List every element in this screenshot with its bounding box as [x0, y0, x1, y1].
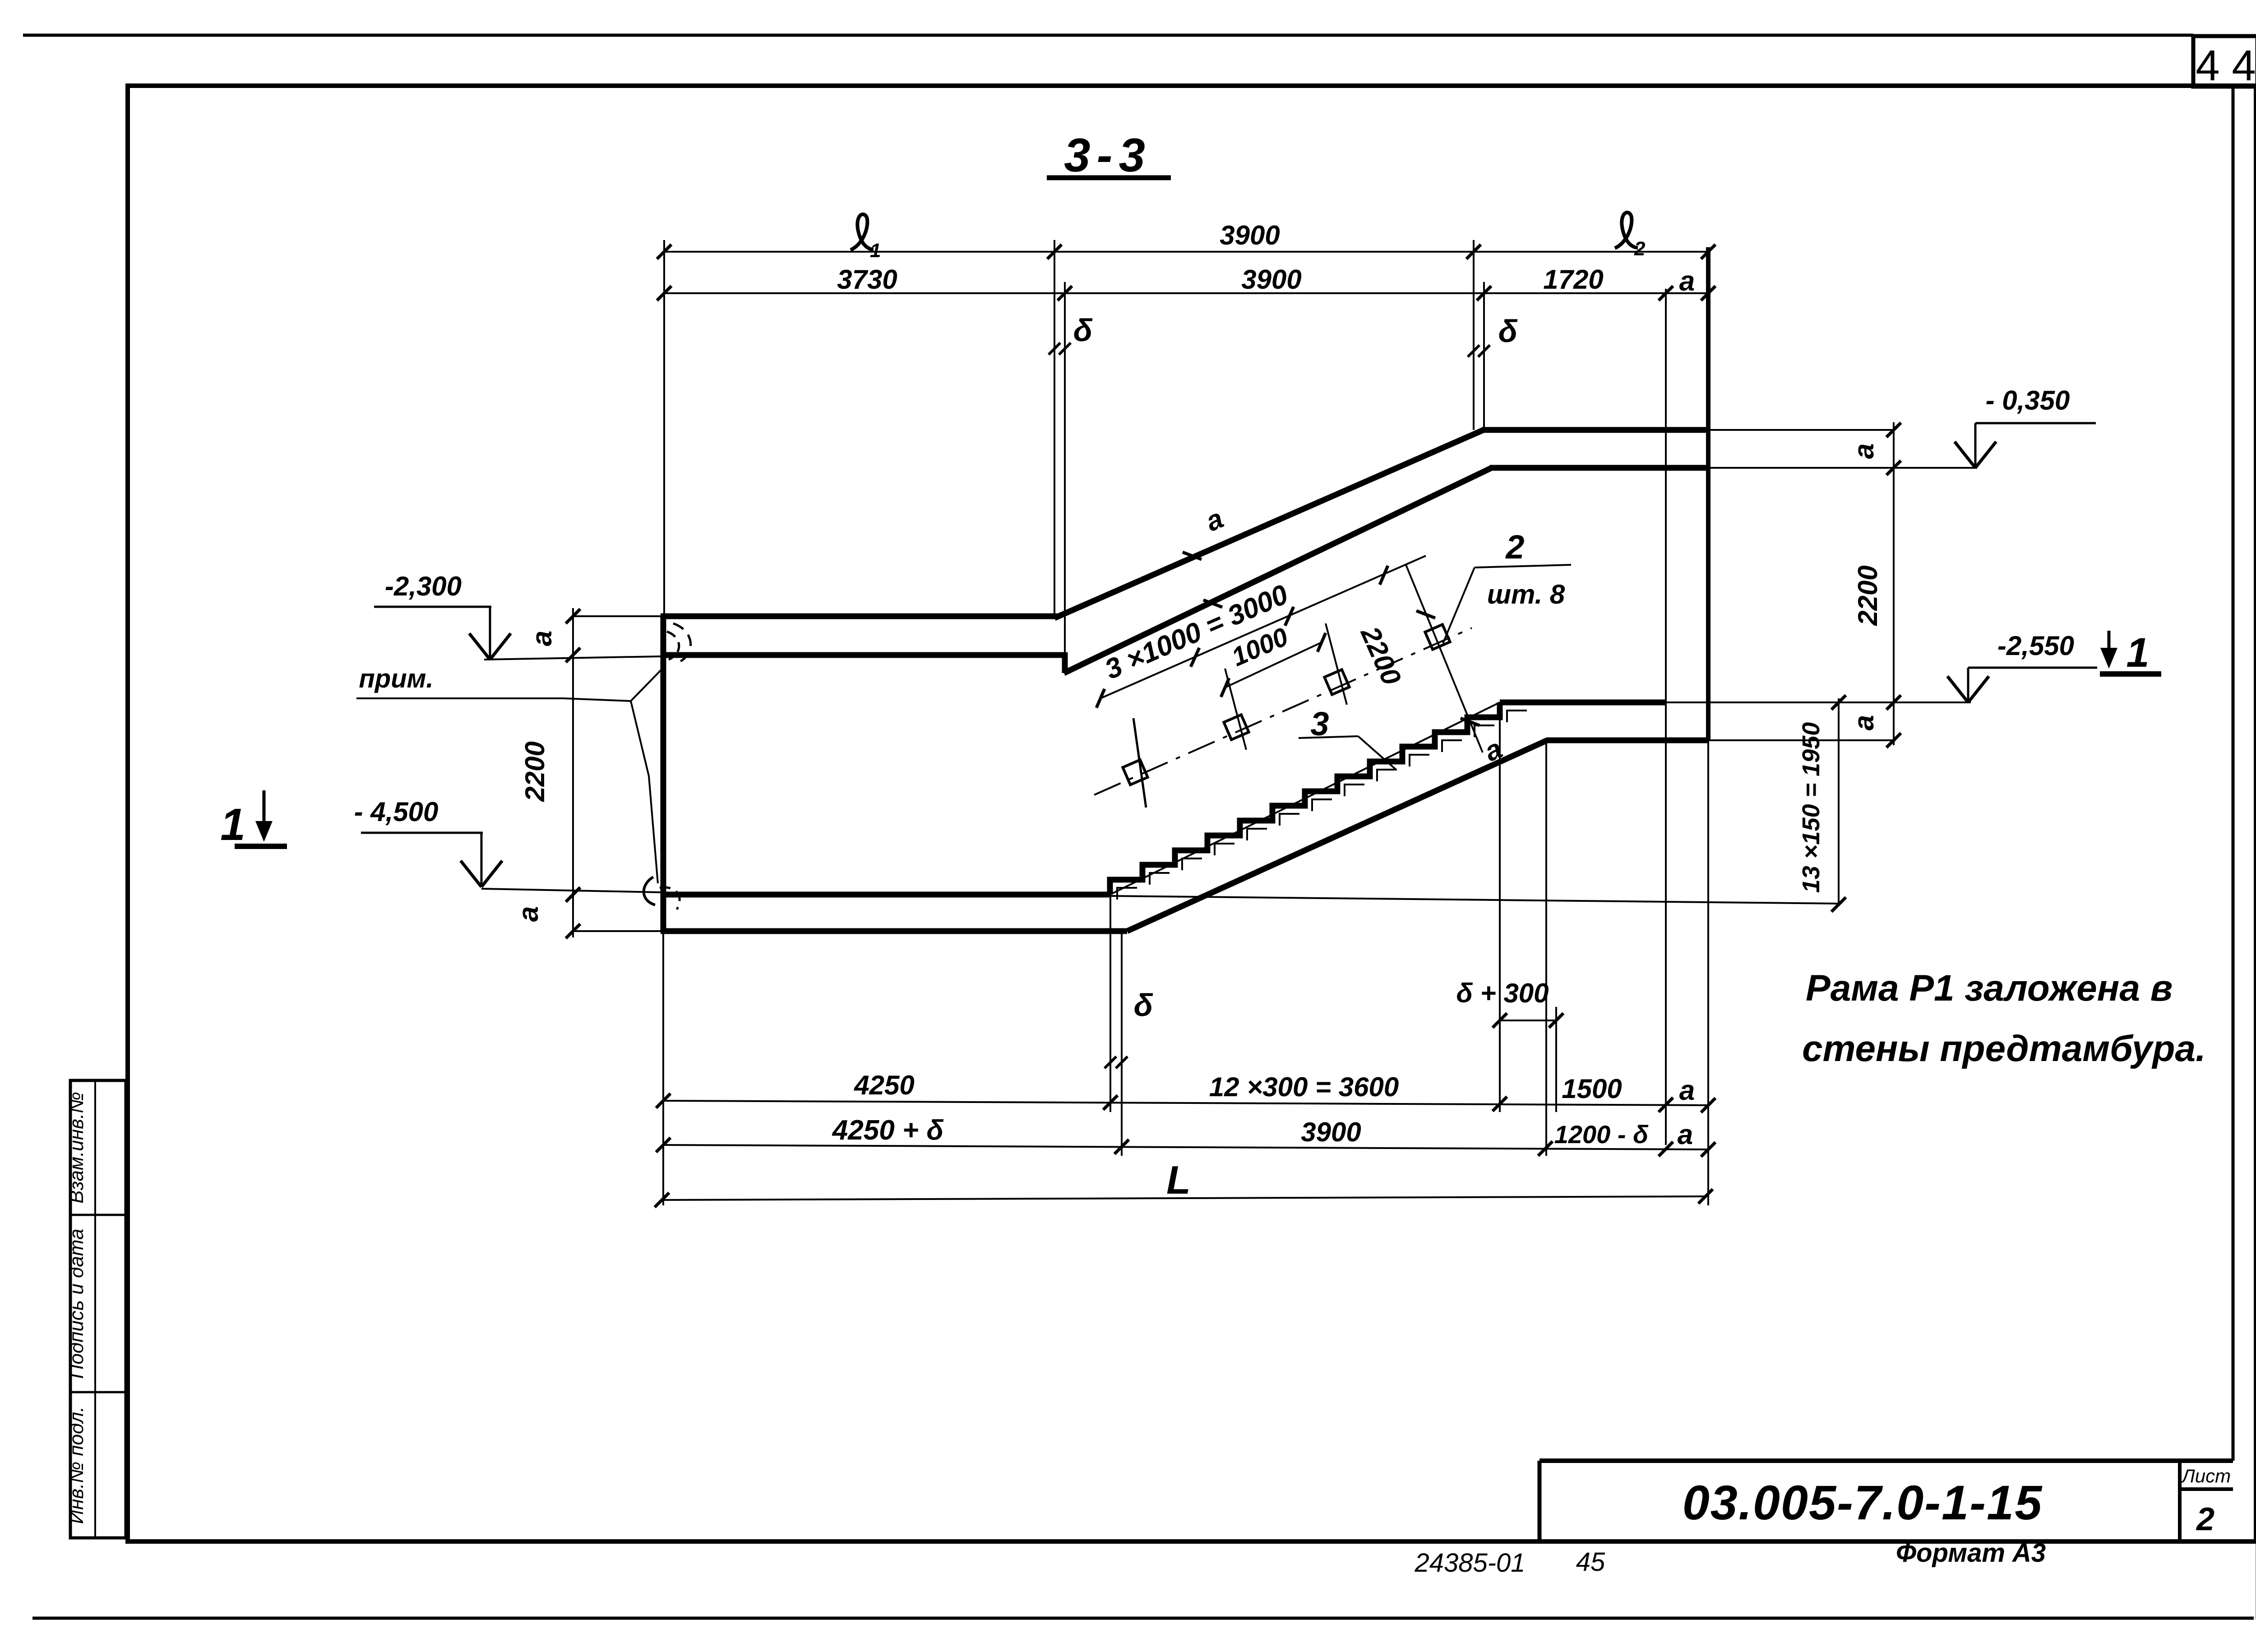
svg-text:Взам.инв.№: Взам.инв.№: [65, 1092, 88, 1204]
svg-text:a: a: [1849, 715, 1880, 730]
anchor plate centerline dash-dot: [1094, 628, 1472, 795]
13x150 dim ticks: [1831, 695, 1846, 710]
left stamp column outline: [70, 1080, 126, 1538]
anchor plate 3: [1324, 669, 1349, 694]
bottom dimension row B line: [663, 1145, 1708, 1149]
svg-text:1500: 1500: [1562, 1074, 1622, 1104]
delta dim right pair: [1468, 345, 1479, 357]
level mark -4,500: [461, 861, 481, 887]
extension line x3324 below landing: [1499, 702, 1501, 1112]
inner right border line: [2232, 87, 2235, 1461]
svg-text:13 ×150 = 1950: 13 ×150 = 1950: [1798, 722, 1825, 893]
upper floor slab bottom edge: [1490, 465, 1708, 471]
upper floor slab top extension line: [1708, 429, 1894, 431]
top dimension row 1 line: [664, 251, 1708, 253]
extension line x3449 delta300: [1555, 1007, 1557, 1112]
tick row1: [1047, 245, 1062, 259]
tick rowA: [1659, 1098, 1673, 1112]
top dimension row 2 line: [664, 292, 1708, 294]
label l2: [1615, 212, 1646, 260]
svg-text:3900: 3900: [1241, 264, 1301, 295]
stair landing bottom extension line: [1708, 739, 1895, 741]
level mark -2,550: [1947, 676, 1968, 702]
extension line x2360: [1064, 282, 1066, 652]
lower slab top extension line under stairs: [1111, 896, 1839, 904]
step nosing line item 3: [1110, 702, 1500, 895]
right wall inner face extension line: [1665, 289, 1667, 1145]
lower slab top extension to left: [481, 889, 661, 892]
extension line x3427 below landing: [1545, 740, 1547, 1156]
middle landing slab bottom edge: [661, 652, 1065, 658]
left a dim upper ticks: [566, 609, 580, 623]
sheet number box: [2193, 36, 2256, 87]
tick rowB: [1114, 1140, 1129, 1154]
svg-text:1720: 1720: [1543, 264, 1603, 295]
tick rowA: [656, 1094, 670, 1108]
svg-text:12 ×300 = 3600: 12 ×300 = 3600: [1209, 1072, 1399, 1102]
svg-text:a: a: [1679, 266, 1695, 297]
upper flight bottom diagonal: [1064, 468, 1492, 673]
tick rowB: [1701, 1142, 1715, 1157]
dim line 1000: [1225, 642, 1322, 688]
slab top extension to left dim: [573, 615, 661, 617]
lower slab bottom extension to left: [573, 930, 661, 932]
svg-text:2200: 2200: [520, 741, 550, 802]
svg-text:a: a: [1678, 1119, 1693, 1150]
anchor plate 2: [1224, 715, 1248, 739]
tick row1: [1466, 245, 1481, 259]
lower junction hook detail: [644, 877, 655, 905]
prim leader branch lower: [631, 701, 658, 883]
left wall section line: [661, 616, 666, 931]
svg-text:2: 2: [1505, 528, 1524, 566]
middle landing edge step down: [1062, 652, 1068, 673]
svg-text:δ: δ: [1498, 314, 1518, 349]
extension line x2461 below stairs: [1110, 895, 1111, 1112]
tick rowB: [1538, 1141, 1553, 1156]
dim line 3x1000=3000: [1100, 556, 1426, 698]
label l1: [851, 214, 881, 262]
stamp divider below Vzam cell: [70, 1214, 126, 1216]
tick row2: [657, 286, 671, 300]
extension line left x1472 lower: [662, 931, 664, 1205]
prim leader line: [356, 698, 631, 701]
stair landing top edge: [1500, 700, 1666, 706]
svg-text:- 0,350: - 0,350: [1986, 385, 2070, 415]
step finish thin marks: [1117, 711, 1527, 900]
lower slab top edge: [661, 892, 1111, 898]
anchor plate 1 vertical mark: [1133, 718, 1146, 808]
svg-text:прим.: прим.: [359, 664, 433, 693]
svg-text:3-3: 3-3: [1064, 129, 1151, 182]
upper flight top diagonal: [1054, 430, 1484, 618]
dim line 2200 perpendicular: [1406, 565, 1483, 752]
stamp column divider vertical: [94, 1080, 96, 1538]
svg-text:2: 2: [1634, 238, 1646, 260]
right wall section line thick: [1706, 247, 1710, 740]
svg-text:Подпись и дата: Подпись и дата: [65, 1229, 88, 1379]
extension line x3289: [1483, 282, 1485, 430]
svg-text:45: 45: [1576, 1547, 1605, 1577]
svg-text:2200: 2200: [1853, 565, 1883, 626]
section title underline: [1047, 175, 1171, 180]
tick 3x1000: [1285, 607, 1294, 626]
svg-text:- 4,500: - 4,500: [354, 797, 439, 827]
tick row2: [1477, 286, 1491, 300]
tick 3x1000: [1380, 566, 1388, 585]
tick row2: [1659, 286, 1673, 300]
extension line left x1472 upper: [663, 240, 665, 616]
svg-text:4 4: 4 4: [2196, 42, 2256, 90]
extension line x2337: [1054, 240, 1055, 616]
bottom dimension row C line L: [662, 1196, 1706, 1200]
svg-text:Лист: Лист: [2181, 1465, 2231, 1486]
anchor plate 1: [1123, 760, 1147, 784]
upper junction dashed detail: [673, 623, 691, 663]
svg-text:1: 1: [2126, 630, 2149, 676]
svg-text:Рама Р1 заложена в: Рама Р1 заложена в: [1806, 968, 2173, 1009]
connector square3 to dim line: [1326, 623, 1347, 705]
svg-text:1: 1: [220, 799, 245, 850]
svg-text:a: a: [1679, 1075, 1695, 1106]
tick rowB: [1659, 1142, 1673, 1156]
tick row1: [657, 245, 671, 259]
tick rowB: [656, 1138, 670, 1152]
stair landing top extension to level mark: [1666, 701, 1971, 703]
tick rowA: [1103, 1095, 1118, 1110]
right wall extension line below landing: [1707, 740, 1709, 1205]
upper floor slab bottom extension to level mark: [1708, 467, 1977, 469]
delta plus 300 dim line: [1500, 1020, 1556, 1021]
svg-text:2: 2: [2196, 1501, 2214, 1537]
svg-text:a: a: [527, 631, 558, 646]
svg-text:24385-01: 24385-01: [1414, 1548, 1525, 1578]
vertical dimension line x4075 13x150: [1838, 698, 1840, 904]
list box: [2178, 1461, 2182, 1540]
stamp divider below Podpis cell: [70, 1391, 126, 1394]
connector square2 to dim line: [1225, 669, 1246, 750]
right a dim upper ticks: [1886, 423, 1901, 437]
svg-text:3900: 3900: [1220, 220, 1280, 250]
right a dim lower ticks: [1886, 695, 1901, 710]
delta dim below stairs: [1105, 1057, 1116, 1068]
svg-text:δ: δ: [1073, 313, 1093, 348]
label a upper flight: [1183, 552, 1202, 559]
svg-text:1200 - δ: 1200 - δ: [1554, 1120, 1649, 1149]
svg-text:-2,300: -2,300: [385, 571, 462, 601]
title block outline: [1539, 1458, 2233, 1463]
extension line x2486 below stairs: [1121, 931, 1123, 1156]
tick 3x1000: [1096, 689, 1105, 708]
stair steps outline: [1110, 702, 1500, 895]
svg-text:шт. 8: шт. 8: [1487, 579, 1565, 609]
svg-text:3730: 3730: [837, 264, 897, 295]
level mark -2,300: [469, 633, 490, 660]
delta dim left pair: [1049, 343, 1060, 355]
svg-text:L: L: [1166, 1158, 1191, 1202]
tick row2: [1701, 286, 1715, 300]
svg-text:a: a: [513, 906, 544, 922]
lower slab bottom edge: [661, 928, 1127, 934]
sheet bottom edge line: [32, 1617, 2254, 1620]
tick row2: [1058, 286, 1072, 300]
svg-text:a: a: [1849, 443, 1880, 459]
tick row1: [1701, 245, 1715, 259]
svg-text:δ + 300: δ + 300: [1456, 978, 1549, 1008]
tick rowA: [1701, 1098, 1715, 1112]
extension line x3266: [1473, 240, 1475, 430]
svg-text:4250: 4250: [854, 1070, 914, 1100]
prim leader branch upper: [631, 667, 664, 701]
sheet top edge line: [23, 34, 2193, 37]
slab bottom extension to left dim: [484, 656, 661, 660]
svg-text:03.005-7.0-1-15: 03.005-7.0-1-15: [1683, 1475, 2043, 1530]
tick rowA: [1493, 1097, 1507, 1111]
svg-text:стены предтамбура.: стены предтамбура.: [1802, 1028, 2206, 1069]
stair landing bottom edge: [1546, 738, 1708, 743]
tick 3x1000: [1191, 648, 1199, 667]
section mark 1 right: [2108, 631, 2111, 658]
lower flight bottom diagonal: [1127, 740, 1547, 931]
left vertical dimension line x1270: [572, 608, 574, 937]
middle landing slab top edge: [661, 614, 1057, 619]
svg-text:4250 + δ: 4250 + δ: [832, 1115, 944, 1146]
left a dim lower ticks: [566, 887, 580, 902]
right vertical dimension line x4197: [1893, 422, 1895, 745]
svg-text:3900: 3900: [1301, 1117, 1361, 1147]
bottom dimension row A line: [663, 1101, 1708, 1105]
level mark -0,350: [1955, 442, 1975, 468]
svg-text:Инв.№ подл.: Инв.№ подл.: [65, 1407, 88, 1524]
upper floor slab top edge: [1482, 427, 1708, 433]
svg-text:-2,550: -2,550: [1997, 631, 2074, 661]
svg-text:δ: δ: [1134, 988, 1153, 1023]
anchor plate 4: [1425, 624, 1450, 649]
svg-text:Формат А3: Формат А3: [1896, 1538, 2046, 1568]
svg-text:1: 1: [870, 240, 881, 262]
